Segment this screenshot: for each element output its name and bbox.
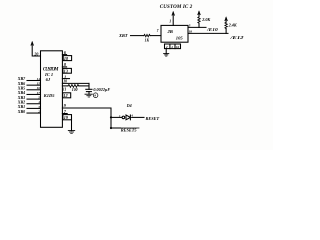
svg-text:4: 4 (170, 45, 173, 49)
ground IC2 (165, 49, 167, 54)
svg-text:CUSTOM IC 2: CUSTOM IC 2 (160, 5, 193, 10)
node vertical to capacitor (88, 83, 90, 89)
svg-text:1: 1 (169, 20, 171, 24)
svg-text:10: 10 (63, 80, 67, 84)
op-amp U1 CUSTOM IC 1 body (41, 51, 63, 128)
wire pin 11 (62, 85, 68, 87)
svg-text:0.0022µF: 0.0022µF (93, 87, 110, 92)
svg-text:2.0K: 2.0K (201, 17, 211, 22)
svg-text:D4: D4 (126, 103, 132, 108)
svg-text:2.4K: 2.4K (228, 23, 238, 28)
wire XB4 (27, 93, 41, 95)
svg-text:14: 14 (37, 77, 41, 81)
pin 6 stub (62, 54, 66, 56)
capacitor C 0.0022uF (86, 88, 92, 90)
overline RESET5 (121, 127, 140, 129)
svg-text:18: 18 (189, 29, 193, 33)
wire XB5 (27, 89, 41, 91)
wire IE12 (188, 32, 228, 34)
svg-text:XB0: XB0 (17, 109, 25, 114)
wire XB3 (27, 98, 41, 100)
resistor R 100 (68, 85, 79, 88)
connector box pin 12 (63, 93, 71, 98)
svg-text:100: 100 (72, 88, 78, 92)
wire pin 9 to reset node (62, 108, 111, 128)
svg-text:2: 2 (37, 109, 40, 113)
svg-text:4: 4 (130, 114, 133, 118)
svg-text:16: 16 (37, 86, 41, 90)
wire pin 10 (62, 82, 89, 84)
circled 9 reference (93, 93, 98, 98)
svg-text:2B: 2B (167, 29, 173, 34)
diode D4 terminal circle (122, 116, 125, 119)
wire IE10 (188, 26, 206, 28)
wire XB6 (27, 84, 41, 86)
svg-text:105: 105 (176, 36, 184, 41)
svg-text:/E12: /E12 (229, 35, 244, 40)
ground IC1 (71, 117, 73, 130)
svg-text:1K: 1K (145, 39, 150, 43)
wire to diode (111, 116, 122, 118)
resistor 2.4K pull-up (225, 29, 227, 34)
svg-text:16: 16 (176, 45, 180, 49)
connector box pin 19 (63, 115, 72, 120)
svg-text:6J: 6J (46, 77, 51, 82)
pin 8 stub (62, 66, 66, 68)
svg-text:4: 4 (37, 100, 40, 104)
wire XB2 (27, 103, 41, 105)
diode D4 (126, 115, 130, 120)
svg-text:11: 11 (63, 87, 67, 91)
wire XB1 (27, 107, 41, 109)
power arrow pin 20 (32, 45, 40, 57)
svg-text:17: 17 (37, 91, 41, 95)
connector box pin 13 (63, 68, 72, 73)
wire RESET5 branch (111, 127, 121, 129)
svg-text:RESET5: RESET5 (121, 127, 138, 132)
node junction dot (110, 116, 112, 118)
svg-text:5: 5 (189, 23, 191, 27)
wire XB7 (27, 80, 41, 82)
svg-text:7: 7 (157, 29, 159, 33)
IC2 bottom pin cells 2 4 16 (165, 44, 181, 49)
transistor Q none : IC2 body (161, 25, 188, 42)
resistor 2.0K pull-up (198, 23, 200, 27)
svg-text:13: 13 (64, 69, 68, 74)
pin 7 stub (62, 113, 67, 115)
svg-text:RESET: RESET (146, 116, 160, 121)
svg-text:9: 9 (64, 103, 67, 108)
svg-text:20: 20 (33, 51, 38, 56)
ground under capacitor (85, 93, 92, 95)
svg-text:5: 5 (38, 96, 40, 100)
svg-text:9: 9 (94, 94, 96, 98)
power arrow pin 1 IC2 (172, 14, 174, 25)
resistor 1K (144, 34, 150, 36)
svg-text:XBT: XBT (118, 33, 128, 38)
svg-text:K1D5: K1D5 (43, 93, 56, 98)
wire XB0 (27, 112, 41, 114)
connector box pin 18 (63, 56, 71, 61)
wire XBT input (131, 35, 144, 37)
pin 1 stub (62, 78, 69, 80)
svg-text:/E10: /E10 (206, 27, 219, 32)
svg-text:15: 15 (37, 82, 41, 86)
svg-text:3: 3 (37, 105, 40, 109)
svg-text:12: 12 (63, 93, 67, 98)
svg-text:2: 2 (165, 45, 168, 49)
